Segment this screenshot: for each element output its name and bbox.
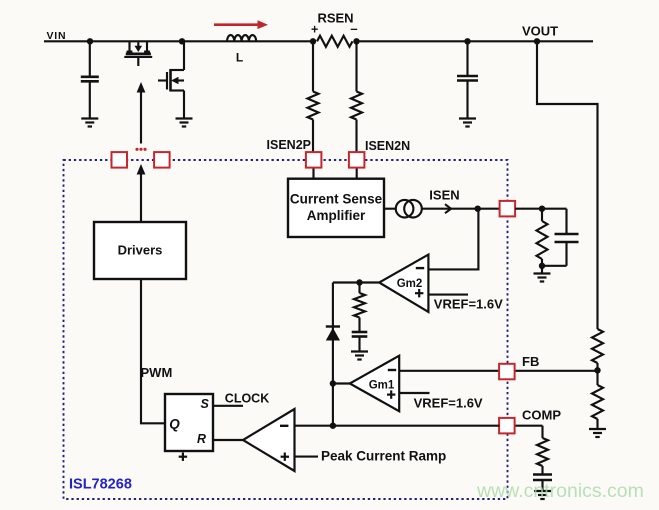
svg-text:Gm1: Gm1 [369, 380, 395, 392]
svg-text:VOUT: VOUT [522, 24, 558, 39]
svg-text:VIN: VIN [47, 30, 67, 42]
svg-text:RSEN: RSEN [317, 11, 353, 26]
svg-text:Drivers: Drivers [118, 243, 163, 258]
svg-text:+: + [311, 23, 318, 37]
svg-text:Peak Current Ramp: Peak Current Ramp [321, 449, 446, 464]
svg-text:COMP: COMP [522, 408, 561, 423]
svg-text:www.cntronics.com: www.cntronics.com [476, 480, 644, 502]
svg-text:R: R [197, 432, 206, 446]
svg-text:ISL78268: ISL78268 [69, 477, 132, 493]
svg-text:Gm2: Gm2 [397, 278, 423, 290]
svg-text:Amplifier: Amplifier [307, 208, 366, 223]
svg-text:VREF=1.6V: VREF=1.6V [414, 396, 483, 411]
svg-text:CLOCK: CLOCK [225, 392, 269, 406]
svg-text:S: S [201, 397, 210, 411]
svg-text:ISEN: ISEN [429, 188, 459, 203]
svg-text:Current Sense: Current Sense [290, 192, 383, 207]
svg-text:ISEN2P: ISEN2P [267, 138, 311, 152]
svg-text:Q: Q [169, 417, 180, 432]
svg-text:PWM: PWM [141, 365, 173, 380]
svg-text:–: – [350, 21, 357, 36]
svg-text:VREF=1.6V: VREF=1.6V [434, 297, 503, 312]
svg-text:FB: FB [522, 354, 539, 369]
svg-text:ISEN2N: ISEN2N [365, 139, 410, 153]
svg-text:L: L [236, 51, 243, 65]
